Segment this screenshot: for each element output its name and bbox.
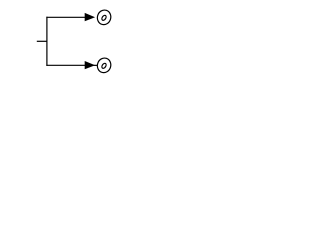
vertical branch wire — [46, 17, 48, 66]
bottom arrow tip tail — [94, 64, 98, 66]
top arrowhead — [85, 13, 95, 21]
bottom node symbol outer ellipse — [96, 56, 113, 74]
bottom arrowhead — [85, 61, 95, 69]
bottom branch wire — [46, 64, 85, 66]
top branch wire — [46, 16, 85, 18]
top node symbol inner ellipse — [101, 15, 107, 22]
top node symbol outer ellipse — [96, 8, 113, 26]
bottom node symbol inner ellipse — [101, 63, 107, 70]
input stub wire — [37, 40, 48, 42]
